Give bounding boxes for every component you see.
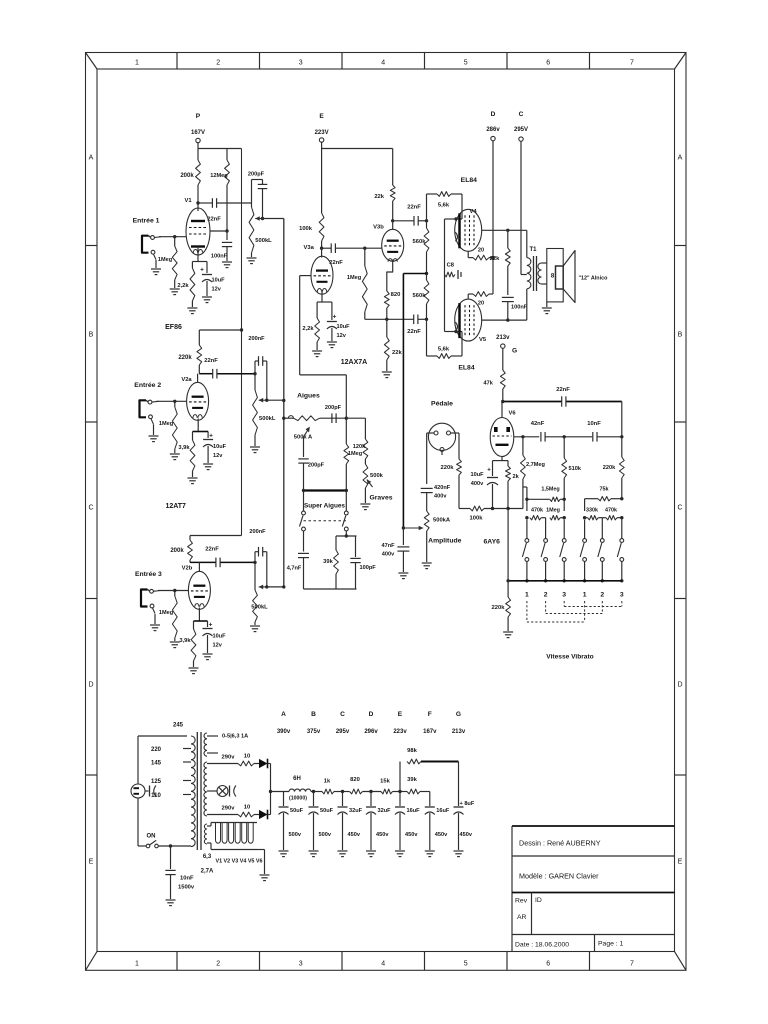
svg-text:1500v: 1500v <box>178 885 195 891</box>
resistor 10 lower <box>238 812 254 817</box>
svg-text:5: 5 <box>464 60 468 67</box>
node <box>282 417 285 420</box>
node <box>240 328 243 331</box>
svg-text:Entrée 3: Entrée 3 <box>135 571 162 578</box>
svg-text:1Meg: 1Meg <box>159 610 174 616</box>
ground <box>187 307 197 309</box>
output transformer core <box>533 256 535 291</box>
pot 500kA amplitude <box>424 511 429 531</box>
heater winding 6.3v <box>204 824 207 844</box>
pot 500kL <box>251 203 253 207</box>
PSU rail node A <box>271 791 290 793</box>
svg-text:G: G <box>456 711 461 718</box>
svg-text:2: 2 <box>544 592 548 599</box>
svg-text:3: 3 <box>620 592 624 599</box>
capacitor 10uF 12v <box>206 262 208 274</box>
svg-text:AR: AR <box>517 914 527 921</box>
svg-text:560k: 560k <box>413 239 427 245</box>
svg-text:1,5Meg: 1,5Meg <box>541 487 559 493</box>
tube V4 EL84 <box>455 209 482 251</box>
row divider ticks <box>86 245 98 247</box>
C8 network <box>444 219 446 332</box>
ground <box>189 667 199 669</box>
wire plug to switch <box>137 798 139 846</box>
ground <box>546 302 548 307</box>
svg-text:5: 5 <box>464 961 468 968</box>
cathode wires <box>198 608 200 622</box>
svg-text:G: G <box>512 348 517 355</box>
resistor 1Meg <box>363 247 366 250</box>
ground <box>170 453 180 455</box>
svg-text:EL84: EL84 <box>461 177 477 184</box>
cathode wire V6 <box>501 457 503 461</box>
svg-text:12v: 12v <box>337 333 347 339</box>
svg-text:223v: 223v <box>393 729 407 735</box>
resistor 200k <box>197 149 199 161</box>
RC box rails <box>336 535 357 537</box>
tube V1 EF86 <box>186 208 210 255</box>
svg-text:EF86: EF86 <box>165 324 182 331</box>
svg-text:200pF: 200pF <box>308 463 325 469</box>
col1 switch <box>525 539 529 543</box>
ground <box>425 850 435 852</box>
svg-text:167V: 167V <box>191 130 205 136</box>
ground <box>312 350 322 352</box>
svg-text:C8: C8 <box>447 263 455 269</box>
svg-text:E: E <box>89 859 94 866</box>
svg-text:75k: 75k <box>600 487 609 493</box>
svg-text:500kL: 500kL <box>259 416 276 422</box>
svg-text:2: 2 <box>216 60 220 67</box>
output transformer secondary <box>538 263 542 284</box>
svg-text:+: + <box>209 622 213 629</box>
capacitor 100nF snubber <box>502 296 514 298</box>
wire upper HT tap <box>207 763 238 765</box>
primary taps 220/145/125/110 <box>183 748 191 750</box>
svg-text:200pF: 200pF <box>248 172 265 178</box>
left bank col1 rail <box>523 486 527 488</box>
capacitor 22nF <box>212 369 214 379</box>
input jack Entree 3 <box>141 590 148 607</box>
terminal D 286v <box>491 136 495 140</box>
svg-text:450v: 450v <box>435 832 448 838</box>
svg-text:7: 7 <box>630 60 634 67</box>
capacitor 32uF 450v <box>342 792 344 807</box>
ground <box>309 850 319 852</box>
svg-text:V3a: V3a <box>304 245 315 251</box>
svg-text:16uF: 16uF <box>436 808 450 814</box>
bright cap 200nF <box>254 552 256 563</box>
svg-text:32uF: 32uF <box>349 808 363 814</box>
svg-text:470k: 470k <box>531 508 543 514</box>
node <box>620 516 623 519</box>
ground <box>398 572 408 574</box>
svg-text:22k: 22k <box>490 256 500 262</box>
node <box>345 417 348 420</box>
node A join <box>270 764 272 815</box>
svg-text:C: C <box>677 505 682 512</box>
ground <box>366 850 376 852</box>
switch super aigues right <box>345 491 347 512</box>
tail wire <box>365 318 414 320</box>
resistor 1Meg <box>173 235 176 238</box>
switch bottom rail <box>508 580 622 582</box>
ground <box>166 899 176 901</box>
svg-text:E: E <box>319 113 324 120</box>
input jack Entree 1 <box>142 236 149 253</box>
svg-text:A: A <box>281 711 286 718</box>
tube V3a <box>321 248 323 257</box>
wire <box>598 517 602 519</box>
ground <box>454 850 464 852</box>
capacitor 22nF <box>215 558 217 568</box>
tube V5 EL84 <box>455 299 482 341</box>
capacitor 47nF 400v <box>402 528 404 545</box>
resistor 39k <box>407 789 420 794</box>
plate wire V5 <box>482 319 527 321</box>
svg-text:Aigues: Aigues <box>297 393 320 400</box>
svg-text:3: 3 <box>299 60 303 67</box>
capacitor 100nF <box>226 231 228 240</box>
svg-text:Page : 1: Page : 1 <box>598 941 624 948</box>
border frame <box>86 53 687 971</box>
svg-text:500kL: 500kL <box>251 605 268 611</box>
plate wire <box>190 561 216 563</box>
resistor 1Meg <box>173 589 176 592</box>
terminal E 223V <box>319 138 323 142</box>
pedal connector <box>428 423 455 450</box>
resistor 100k <box>321 149 323 214</box>
resistor 470k left <box>530 516 542 520</box>
col5 switch <box>600 539 604 543</box>
svg-text:B: B <box>678 332 683 339</box>
heater bus ground wire <box>257 849 265 851</box>
svg-text:2,2k: 2,2k <box>302 326 314 332</box>
ground <box>247 257 257 259</box>
node plate V1 <box>196 201 199 204</box>
svg-text:6,3: 6,3 <box>203 854 212 860</box>
resistor 22k V3b plate <box>392 149 394 186</box>
resistor 39k <box>335 536 337 550</box>
svg-text:330k: 330k <box>586 508 598 514</box>
treble wiper <box>304 431 308 453</box>
svg-text:286v: 286v <box>486 127 500 133</box>
svg-text:10uF: 10uF <box>337 324 351 330</box>
svg-text:C: C <box>519 111 524 118</box>
svg-text:220k: 220k <box>492 605 506 611</box>
node B <box>311 791 322 793</box>
svg-text:10: 10 <box>244 754 250 760</box>
svg-text:245: 245 <box>173 723 184 729</box>
wire down to chain <box>621 402 623 437</box>
speaker cone <box>563 251 575 303</box>
svg-text:Vitesse Vibrato: Vitesse Vibrato <box>546 654 593 661</box>
ground <box>154 614 156 624</box>
resistor 1k <box>322 789 334 794</box>
resistor 12Meg <box>226 149 228 161</box>
svg-text:2: 2 <box>600 592 604 599</box>
grid chain wire <box>514 436 540 438</box>
transformer primary coil <box>191 736 195 847</box>
svg-text:22nF: 22nF <box>205 547 219 553</box>
screen resistor 20 bottom <box>467 294 469 299</box>
wire rail riser <box>507 509 509 581</box>
svg-text:200pF: 200pF <box>325 405 342 411</box>
svg-text:100pF: 100pF <box>360 565 377 571</box>
svg-text:1Meg: 1Meg <box>348 451 363 457</box>
resistor 220k vibrato gnd <box>507 581 509 597</box>
svg-text:22nF: 22nF <box>204 358 218 364</box>
wire to 220k <box>199 329 241 331</box>
svg-text:560k: 560k <box>413 293 427 299</box>
wire to node F <box>420 791 430 793</box>
col4 switch <box>583 539 587 543</box>
col3 switch <box>562 539 566 543</box>
capacitor 50uF 500v <box>313 792 315 807</box>
svg-text:42nF: 42nF <box>531 421 545 427</box>
diode lower <box>254 814 259 816</box>
svg-text:220: 220 <box>151 747 162 753</box>
wire P to rail <box>197 143 199 149</box>
svg-text:D: D <box>88 682 93 689</box>
svg-text:V1 V2 V3 V4 V5 V6: V1 V2 V3 V4 V5 V6 <box>215 859 262 865</box>
svg-text:Super Aigues: Super Aigues <box>304 503 345 510</box>
secondary winding 290v upper <box>204 762 207 792</box>
resistor 15k <box>381 789 393 794</box>
svg-text:10uF: 10uF <box>212 278 226 284</box>
wire to 120k <box>346 417 365 419</box>
col2 stem <box>545 518 547 539</box>
node line thick <box>304 489 347 491</box>
capacitor 420nF 400v <box>421 487 433 489</box>
svg-text:3: 3 <box>562 592 566 599</box>
bias line 100k <box>459 508 470 510</box>
resistor 220k <box>621 437 623 457</box>
resistor 560k upper <box>426 221 428 228</box>
ground <box>188 477 198 479</box>
svg-text:145: 145 <box>151 760 162 766</box>
svg-text:B: B <box>89 332 94 339</box>
svg-text:12AX7A: 12AX7A <box>341 359 367 366</box>
secondary winding 290v lower <box>204 792 207 816</box>
svg-text:50uF: 50uF <box>290 808 304 814</box>
svg-text:100k: 100k <box>299 226 313 232</box>
svg-text:32uF: 32uF <box>378 808 392 814</box>
node mid 560k <box>425 272 428 275</box>
node plate V3b <box>391 219 394 222</box>
switch gang dashed <box>304 520 347 522</box>
svg-text:1: 1 <box>525 592 529 599</box>
wire plug to transformer top <box>137 736 139 784</box>
svg-text:Graves: Graves <box>369 495 392 502</box>
svg-text:+: + <box>487 468 491 474</box>
svg-text:Rev: Rev <box>515 898 528 905</box>
svg-text:"12" Alnico: "12" Alnico <box>579 276 609 282</box>
svg-text:A: A <box>678 155 683 162</box>
svg-text:D: D <box>491 111 496 118</box>
wire E rail <box>321 142 323 148</box>
node E <box>393 791 408 793</box>
svg-text:2,7Meg: 2,7Meg <box>526 462 546 468</box>
svg-text:1: 1 <box>135 60 139 67</box>
svg-text:296v: 296v <box>364 729 378 735</box>
bright cap 200pF <box>251 180 253 204</box>
svg-text:1Meg: 1Meg <box>347 275 362 281</box>
col6 switch <box>620 539 624 543</box>
capacitor 22nF <box>393 220 414 222</box>
heater bus V1-V6 <box>211 822 257 824</box>
wire switch to transformer bottom <box>158 845 191 847</box>
wire stage2 out to bus <box>267 399 284 401</box>
vibrato inject wire <box>403 273 426 275</box>
svg-text:12AT7: 12AT7 <box>165 503 186 510</box>
svg-text:4,7nF: 4,7nF <box>287 566 302 572</box>
svg-text:47k: 47k <box>483 381 493 387</box>
svg-text:V6: V6 <box>508 411 516 417</box>
svg-text:7: 7 <box>630 961 634 968</box>
col2 switch <box>544 539 548 543</box>
screen node <box>225 229 228 232</box>
svg-text:10uF: 10uF <box>213 634 227 640</box>
grid wire <box>158 590 189 592</box>
svg-text:V2a: V2a <box>181 377 192 383</box>
node <box>253 561 256 564</box>
wire lower HT tap <box>207 814 238 816</box>
svg-text:295v: 295v <box>336 729 350 735</box>
svg-text:5,6k: 5,6k <box>438 203 450 209</box>
resistor 100k <box>470 506 484 511</box>
capacitor 16uF 450v <box>399 792 401 807</box>
wire stage1 out to bus <box>263 218 284 220</box>
terminal C 295V <box>519 137 523 141</box>
svg-text:6AY6: 6AY6 <box>484 539 501 546</box>
switch super aigues left <box>303 491 305 512</box>
svg-text:1k: 1k <box>324 779 331 785</box>
svg-text:375v: 375v <box>307 729 321 735</box>
svg-text:V5: V5 <box>479 337 487 343</box>
svg-text:167v: 167v <box>423 729 437 735</box>
ground <box>250 625 260 627</box>
capacitor 42nF <box>540 432 542 442</box>
svg-text:V2b: V2b <box>182 566 193 572</box>
svg-text:1Meg: 1Meg <box>546 508 560 514</box>
svg-text:1: 1 <box>583 592 587 599</box>
input jack Entree 2 <box>140 400 147 417</box>
svg-text:ID: ID <box>535 897 542 904</box>
svg-text:6: 6 <box>546 60 550 67</box>
resistor 2k <box>507 461 509 466</box>
svg-text:3,9k: 3,9k <box>178 445 190 451</box>
capacitor 10nF 1500v <box>170 846 172 869</box>
plate wire V4 <box>482 229 527 231</box>
column divider ticks <box>176 53 178 70</box>
wire F feed down <box>241 149 243 536</box>
svg-text:3: 3 <box>299 961 303 968</box>
svg-text:450v: 450v <box>460 832 473 838</box>
cathode wires <box>197 247 199 262</box>
node <box>425 318 428 321</box>
resistor 2.2k <box>316 302 318 318</box>
capacitor 200pF slope <box>303 452 305 457</box>
amplitude wiper <box>403 527 423 529</box>
svg-text:22nF: 22nF <box>407 329 421 335</box>
capacitor 10uF 12v <box>207 621 209 627</box>
capacitor 22nF tail <box>413 315 415 325</box>
svg-text:22nF: 22nF <box>556 387 570 393</box>
svg-text:16uF: 16uF <box>407 808 421 814</box>
pot 500kL <box>254 374 256 390</box>
pilot lamp <box>207 790 217 792</box>
resistor 820 <box>350 789 363 794</box>
plate wire <box>199 373 212 375</box>
svg-text:213v: 213v <box>452 729 466 735</box>
right bank left rail <box>584 499 586 511</box>
ground <box>338 850 348 852</box>
svg-text:213v: 213v <box>496 335 510 341</box>
resistor 820 <box>384 291 389 308</box>
wire C down to CT <box>520 141 522 274</box>
svg-text:Modèle : GAREN Clavier: Modèle : GAREN Clavier <box>519 872 599 881</box>
wire stage3 out to bus <box>267 586 284 588</box>
svg-text:120k: 120k <box>353 444 366 450</box>
grid drive bottom 5.6k <box>426 319 428 356</box>
ground <box>360 503 370 505</box>
ground <box>422 562 432 564</box>
cathode wires <box>197 419 199 432</box>
resistor 22k tail <box>386 319 388 337</box>
svg-text:10uF: 10uF <box>470 472 484 478</box>
tube V2a <box>197 374 199 382</box>
node <box>620 435 623 438</box>
ground <box>260 874 270 876</box>
resistor 220k <box>198 330 200 345</box>
mains plug <box>131 784 145 798</box>
ground <box>222 261 232 263</box>
pot 500k graves <box>364 459 366 464</box>
svg-text:820: 820 <box>350 777 360 783</box>
node <box>402 526 405 529</box>
tube V2b <box>198 562 200 572</box>
svg-text:6: 6 <box>546 961 550 968</box>
ground <box>202 296 212 298</box>
resistor 1Meg sw <box>550 516 560 520</box>
resistor 510k <box>563 437 565 458</box>
switch ON <box>146 844 150 848</box>
svg-text:A: A <box>89 155 94 162</box>
tube V6 6AY6 <box>501 402 503 418</box>
terminal P 167V <box>196 138 200 142</box>
svg-text:(10000): (10000) <box>289 796 307 802</box>
svg-text:Date : 18.06.2000: Date : 18.06.2000 <box>515 942 569 949</box>
capacitor 10uF 400v <box>492 461 494 476</box>
wire treble node up <box>345 375 347 418</box>
svg-text:295V: 295V <box>514 127 528 133</box>
svg-text:D: D <box>677 682 682 689</box>
wiper arrow <box>259 586 267 588</box>
svg-text:15k: 15k <box>380 779 390 785</box>
svg-text:12v: 12v <box>213 643 223 649</box>
pedal right wire <box>451 432 459 434</box>
ground <box>327 341 337 343</box>
capacitor 8uF 450v <box>454 806 464 808</box>
node <box>563 498 566 501</box>
ground <box>170 641 180 643</box>
svg-text:450v: 450v <box>348 832 361 838</box>
resistor 3.9k <box>193 621 195 629</box>
svg-text:12v: 12v <box>212 287 222 293</box>
svg-text:100nF: 100nF <box>211 254 228 260</box>
svg-text:4: 4 <box>381 60 385 67</box>
